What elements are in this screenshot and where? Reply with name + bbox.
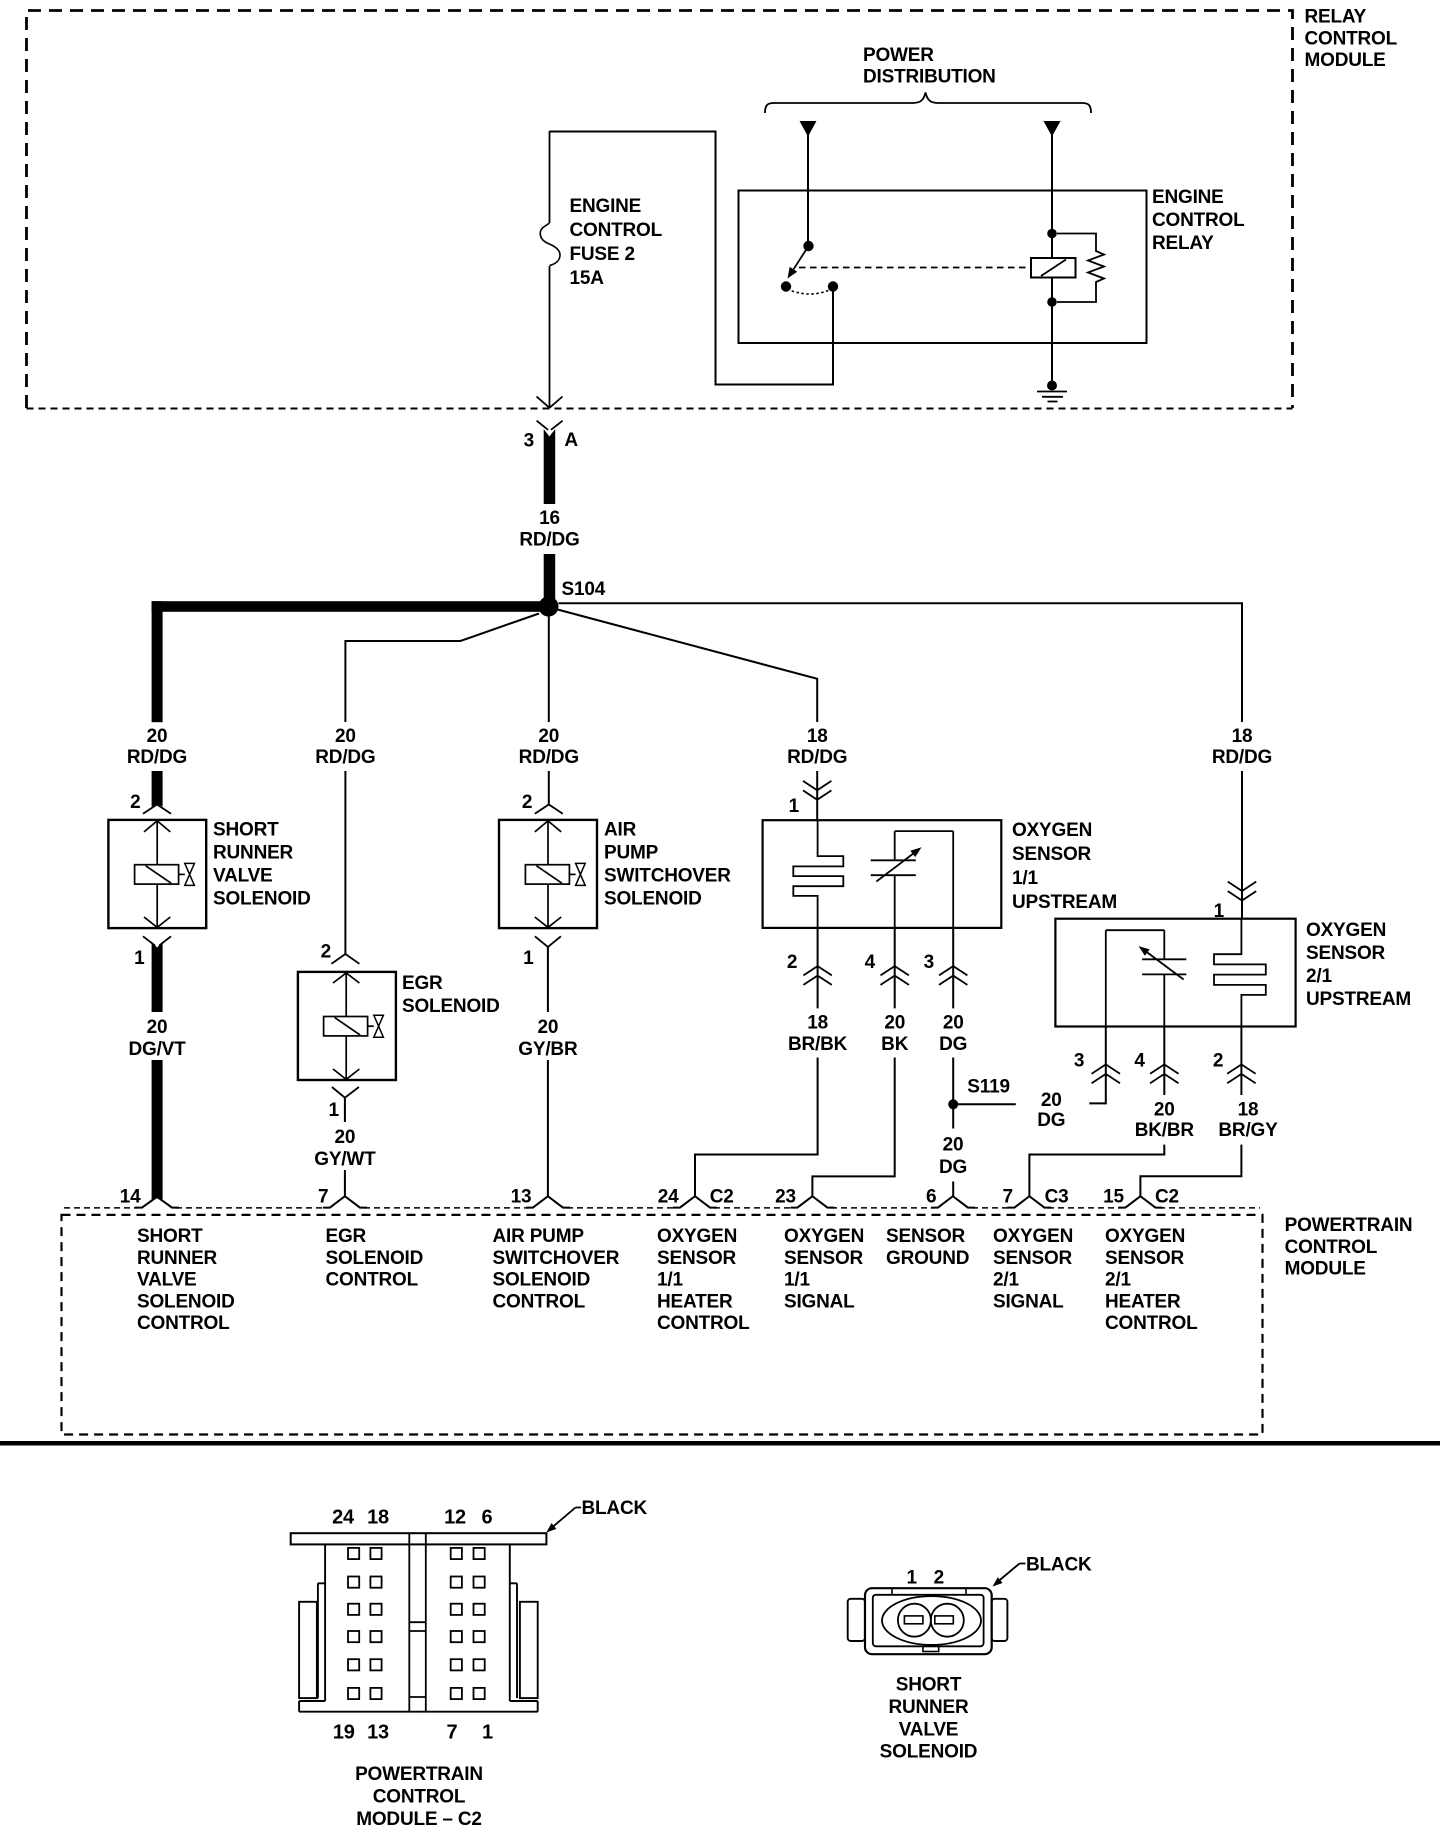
- wire 20 BK to pin 23: [812, 1058, 894, 1197]
- PCM C2 connector left body: [299, 1544, 409, 1711]
- svg-text:EGR: EGR: [402, 973, 443, 994]
- pin 15 C2 chevron at PCM: [1118, 1196, 1162, 1207]
- svg-text:VALVE: VALVE: [213, 866, 273, 887]
- svg-text:ENGINE: ENGINE: [1152, 187, 1224, 208]
- svg-text:SWITCHOVER: SWITCHOVER: [493, 1248, 620, 1269]
- svg-text:SENSOR: SENSOR: [1105, 1248, 1185, 1269]
- svg-text:GY/BR: GY/BR: [518, 1039, 578, 1060]
- svg-text:15A: 15A: [570, 268, 605, 289]
- svg-text:CONTROL: CONTROL: [657, 1313, 750, 1334]
- inline connector chevrons O2 1/1 pin 2: [803, 966, 831, 985]
- svg-text:20: 20: [335, 726, 356, 747]
- wire 20 GY/WT: [344, 1098, 346, 1196]
- svg-text:SENSOR: SENSOR: [993, 1248, 1073, 1269]
- svg-text:2: 2: [1213, 1051, 1223, 1072]
- svg-text:18: 18: [807, 1012, 828, 1033]
- svg-text:BLACK: BLACK: [582, 1498, 648, 1519]
- short runner connector black leader arrow: [993, 1564, 1026, 1587]
- svg-text:13: 13: [511, 1186, 532, 1207]
- svg-text:7: 7: [1003, 1186, 1013, 1207]
- pin 7 chevron at PCM: [323, 1196, 367, 1207]
- relay suppression resistor: [1057, 234, 1104, 303]
- oxygen sensor 1/1 heater element: [793, 820, 843, 928]
- svg-text:SENSOR: SENSOR: [1012, 844, 1092, 865]
- svg-text:4: 4: [865, 952, 876, 973]
- inline connector chevrons O2 1/1 pin 3: [939, 966, 967, 985]
- wire 20 GY/BR: [547, 947, 549, 1196]
- svg-text:SHORT: SHORT: [896, 1675, 962, 1696]
- relay switch dashed travel arc: [787, 289, 832, 294]
- svg-text:2/1: 2/1: [1105, 1270, 1131, 1291]
- svg-text:20: 20: [1041, 1090, 1062, 1111]
- pin 6 chevron at PCM: [931, 1196, 975, 1207]
- svg-text:CONTROL: CONTROL: [326, 1270, 419, 1291]
- oxygen sensor 1/1 sensing element: [871, 831, 954, 928]
- svg-text:OXYGEN: OXYGEN: [1012, 820, 1092, 841]
- PCM C2 black leader arrow: [546, 1508, 581, 1533]
- svg-text:C2: C2: [1155, 1186, 1179, 1207]
- pin 1 connector at short runner valve solenoid: [143, 936, 171, 1012]
- inline connector chevrons O2 2/1 pin 4: [1150, 1064, 1178, 1083]
- svg-text:20: 20: [943, 1135, 964, 1156]
- svg-text:HEATER: HEATER: [657, 1291, 733, 1312]
- svg-text:1: 1: [329, 1100, 340, 1121]
- air pump switchover solenoid internals: [525, 821, 585, 928]
- svg-text:RD/DG: RD/DG: [1212, 747, 1272, 768]
- svg-text:DISTRIBUTION: DISTRIBUTION: [863, 67, 996, 88]
- PCM C2 connector center divider: [409, 1533, 426, 1712]
- svg-text:3: 3: [1074, 1051, 1084, 1072]
- svg-text:2: 2: [522, 792, 532, 813]
- relay coil: [1031, 258, 1076, 278]
- relay coil top node: [1047, 229, 1057, 239]
- splice S104: [539, 597, 559, 617]
- svg-text:DG/VT: DG/VT: [128, 1039, 186, 1060]
- svg-text:A: A: [564, 430, 578, 451]
- svg-text:1: 1: [134, 948, 145, 969]
- svg-text:BK: BK: [881, 1034, 909, 1055]
- svg-text:UPSTREAM: UPSTREAM: [1012, 892, 1117, 913]
- svg-text:18: 18: [367, 1507, 389, 1529]
- EGR branch wire from S104: [345, 614, 539, 954]
- svg-text:2: 2: [130, 792, 140, 813]
- relay coil bottom node: [1047, 297, 1057, 307]
- splice S119: [948, 1099, 958, 1109]
- svg-text:23: 23: [775, 1186, 796, 1207]
- short runner valve solenoid box: [108, 820, 206, 928]
- pin 2 connector at EGR solenoid: [331, 954, 359, 964]
- oxygen sensor 2/1 sensing element: [1106, 930, 1187, 1026]
- power feed arrow B+ left: [800, 121, 817, 137]
- svg-text:SENSOR: SENSOR: [657, 1248, 737, 1269]
- svg-text:FUSE 2: FUSE 2: [570, 244, 635, 265]
- svg-text:ENGINE: ENGINE: [570, 196, 642, 217]
- svg-text:6: 6: [926, 1186, 936, 1207]
- svg-text:14: 14: [120, 1186, 141, 1207]
- svg-text:20: 20: [147, 726, 168, 747]
- svg-text:2: 2: [321, 942, 331, 963]
- power feed arrow B+ right: [1044, 121, 1061, 137]
- wire 20 BK/BR to pin 7 C3: [1029, 1145, 1164, 1196]
- svg-text:MODULE: MODULE: [1305, 50, 1386, 71]
- svg-text:20: 20: [1154, 1099, 1175, 1120]
- svg-text:CONTROL: CONTROL: [570, 220, 663, 241]
- svg-text:SENSOR: SENSOR: [784, 1248, 864, 1269]
- EGR solenoid box: [298, 972, 396, 1080]
- powertrain control module dashed box: [62, 1215, 1263, 1435]
- pin 14 chevron at PCM: [135, 1197, 179, 1208]
- svg-text:EGR: EGR: [326, 1226, 367, 1247]
- svg-text:RUNNER: RUNNER: [888, 1697, 969, 1718]
- svg-text:OXYGEN: OXYGEN: [784, 1226, 864, 1247]
- svg-text:SOLENOID: SOLENOID: [137, 1291, 235, 1312]
- oxygen sensor 2/1 heater element: [1214, 919, 1266, 1027]
- O2 1/1 pin wires below box: [818, 928, 954, 1009]
- svg-text:RUNNER: RUNNER: [213, 842, 294, 863]
- pin 13 chevron at PCM: [526, 1196, 570, 1207]
- svg-text:AIR: AIR: [604, 819, 637, 840]
- pin 1 connector at EGR solenoid: [332, 1087, 359, 1098]
- PCM connector row thin dashed line: [64, 1207, 1260, 1209]
- svg-text:15: 15: [1103, 1186, 1124, 1207]
- oxygen sensor 2/1 branch wire from S104: [559, 603, 1243, 919]
- PCM C2 connector top bar: [291, 1533, 547, 1544]
- svg-text:RD/DG: RD/DG: [315, 747, 375, 768]
- relay switch contact left: [781, 281, 791, 291]
- svg-text:RELAY: RELAY: [1152, 233, 1214, 254]
- inline connector chevrons O2 2/1 pin 2: [1227, 1064, 1255, 1083]
- pin 2 connector at short runner valve solenoid: [143, 805, 171, 814]
- svg-text:24: 24: [658, 1186, 679, 1207]
- svg-text:DG: DG: [939, 1157, 967, 1178]
- svg-text:BLACK: BLACK: [1026, 1555, 1092, 1576]
- svg-text:OXYGEN: OXYGEN: [993, 1226, 1073, 1247]
- svg-text:CONTROL: CONTROL: [1285, 1237, 1378, 1258]
- svg-text:1: 1: [907, 1568, 918, 1589]
- svg-text:1: 1: [1214, 901, 1225, 922]
- svg-text:20: 20: [538, 726, 559, 747]
- connector pin 3/A: [537, 421, 563, 504]
- svg-text:SHORT: SHORT: [137, 1226, 203, 1247]
- engine control fuse 2: [540, 131, 560, 407]
- relay actuation dashed link: [799, 267, 1030, 269]
- svg-text:RD/DG: RD/DG: [519, 747, 579, 768]
- relay switch blade with arrowhead: [788, 246, 809, 279]
- svg-text:GY/WT: GY/WT: [314, 1149, 376, 1170]
- svg-text:1/1: 1/1: [1012, 868, 1038, 889]
- svg-text:12: 12: [444, 1507, 466, 1529]
- PCM C2 connector right body: [426, 1544, 538, 1711]
- svg-text:1: 1: [789, 796, 800, 817]
- svg-text:RD/DG: RD/DG: [519, 530, 579, 551]
- inline connector chevrons O2 2/1 pin 3: [1092, 1064, 1120, 1083]
- svg-text:3: 3: [924, 952, 934, 973]
- svg-text:18: 18: [807, 726, 828, 747]
- svg-text:20: 20: [538, 1017, 559, 1038]
- svg-text:20: 20: [335, 1127, 356, 1148]
- wire relay switch output to fuse: [550, 132, 834, 385]
- svg-text:UPSTREAM: UPSTREAM: [1306, 989, 1411, 1010]
- wire 20 DG S119 to pin 6: [952, 1109, 954, 1196]
- svg-text:RELAY: RELAY: [1305, 7, 1367, 28]
- svg-text:24: 24: [332, 1507, 355, 1529]
- relay switch contact right (output): [828, 281, 838, 291]
- svg-text:OXYGEN: OXYGEN: [1105, 1226, 1185, 1247]
- svg-text:1: 1: [482, 1722, 493, 1744]
- svg-text:RD/DG: RD/DG: [787, 747, 847, 768]
- svg-text:HEATER: HEATER: [1105, 1291, 1181, 1312]
- pin 1 connector at air pump solenoid: [535, 936, 561, 947]
- svg-text:OXYGEN: OXYGEN: [1306, 920, 1386, 941]
- power distribution brace: [765, 93, 1091, 114]
- svg-text:BR/GY: BR/GY: [1218, 1120, 1278, 1141]
- wire 20 DG to splice S119: [952, 1058, 954, 1100]
- wire 18 BR/BK to pin 24: [695, 1058, 818, 1197]
- svg-text:19: 19: [333, 1722, 355, 1744]
- svg-text:CONTROL: CONTROL: [1105, 1313, 1198, 1334]
- svg-text:S104: S104: [562, 579, 606, 600]
- wire 18 BR/GY to pin 15 C2: [1140, 1145, 1241, 1196]
- inline connector chevrons O2 1/1 pin 1: [803, 781, 831, 800]
- ground symbol: [1037, 381, 1067, 402]
- svg-text:VALVE: VALVE: [899, 1719, 959, 1740]
- svg-text:CONTROL: CONTROL: [1152, 210, 1245, 231]
- svg-text:SWITCHOVER: SWITCHOVER: [604, 866, 731, 887]
- oxygen sensor 1/1 branch wire from S104: [558, 610, 818, 821]
- svg-text:MODULE – C2: MODULE – C2: [356, 1809, 482, 1830]
- air pump switchover solenoid box: [499, 820, 597, 928]
- pin 24 C2 chevron at PCM: [673, 1196, 717, 1207]
- svg-text:AIR PUMP: AIR PUMP: [493, 1226, 585, 1247]
- svg-text:SOLENOID: SOLENOID: [402, 996, 500, 1017]
- svg-text:PUMP: PUMP: [604, 842, 659, 863]
- svg-text:DG: DG: [939, 1034, 967, 1055]
- svg-text:CONTROL: CONTROL: [493, 1291, 586, 1312]
- svg-text:2/1: 2/1: [1306, 966, 1332, 987]
- svg-text:18: 18: [1232, 726, 1253, 747]
- svg-text:OXYGEN: OXYGEN: [657, 1226, 737, 1247]
- svg-text:SOLENOID: SOLENOID: [880, 1742, 978, 1763]
- PCM C2 pin cavities: [348, 1548, 485, 1699]
- short runner valve solenoid connector body: [848, 1588, 1008, 1654]
- oxygen sensor 2/1 upstream box: [1055, 919, 1295, 1027]
- wire 20 DG/VT thick: [152, 1060, 163, 1201]
- svg-text:POWERTRAIN: POWERTRAIN: [355, 1764, 483, 1785]
- pin 23 chevron at PCM: [790, 1196, 834, 1207]
- svg-text:POWER: POWER: [863, 45, 934, 66]
- svg-text:SHORT: SHORT: [213, 819, 279, 840]
- svg-text:20: 20: [884, 1012, 905, 1033]
- svg-text:6: 6: [482, 1507, 493, 1529]
- svg-text:16: 16: [539, 508, 560, 529]
- short runner valve solenoid internals: [135, 821, 195, 928]
- svg-text:SENSOR: SENSOR: [886, 1226, 966, 1247]
- svg-text:CONTROL: CONTROL: [137, 1313, 230, 1334]
- svg-text:7: 7: [318, 1186, 328, 1207]
- svg-text:20: 20: [147, 1017, 168, 1038]
- svg-text:SIGNAL: SIGNAL: [993, 1291, 1064, 1312]
- engine control relay box: [739, 191, 1147, 344]
- svg-text:CONTROL: CONTROL: [373, 1786, 466, 1807]
- svg-text:SENSOR: SENSOR: [1306, 943, 1386, 964]
- svg-text:C3: C3: [1045, 1186, 1069, 1207]
- svg-text:1/1: 1/1: [657, 1270, 683, 1291]
- svg-text:CONTROL: CONTROL: [1305, 28, 1398, 49]
- svg-text:DG: DG: [1037, 1110, 1065, 1131]
- svg-text:20: 20: [943, 1012, 964, 1033]
- svg-text:S119: S119: [967, 1077, 1010, 1098]
- svg-text:2: 2: [934, 1568, 944, 1589]
- svg-text:BR/BK: BR/BK: [788, 1034, 848, 1055]
- svg-text:SOLENOID: SOLENOID: [493, 1270, 591, 1291]
- wire from power feed to relay switch: [807, 135, 809, 246]
- svg-text:RUNNER: RUNNER: [137, 1248, 218, 1269]
- svg-text:13: 13: [367, 1722, 389, 1744]
- svg-text:POWERTRAIN: POWERTRAIN: [1285, 1215, 1413, 1236]
- svg-text:C2: C2: [710, 1186, 734, 1207]
- relay control module dashed box: [27, 11, 1293, 409]
- svg-text:1/1: 1/1: [784, 1270, 810, 1291]
- pin 7 C3 chevron at PCM: [1007, 1196, 1051, 1207]
- svg-text:MODULE: MODULE: [1285, 1259, 1366, 1280]
- svg-text:SOLENOID: SOLENOID: [213, 889, 311, 910]
- fuse output arrowhead at module edge: [537, 397, 563, 408]
- wire 16 RD/DG thick trunk: [544, 554, 556, 599]
- wire from power feed to relay coil: [1051, 135, 1053, 258]
- wire relay coil to ground: [1051, 278, 1053, 382]
- svg-text:SOLENOID: SOLENOID: [604, 889, 702, 910]
- EGR solenoid internals: [324, 973, 384, 1080]
- svg-text:GROUND: GROUND: [886, 1248, 969, 1269]
- separator bar: [0, 1441, 1440, 1446]
- inline connector chevrons O2 1/1 pin 4: [881, 966, 909, 985]
- svg-text:SIGNAL: SIGNAL: [784, 1291, 855, 1312]
- svg-text:3: 3: [524, 431, 534, 452]
- wire S119 to oxygen sensor 2/1 pin 3: [958, 1103, 1016, 1105]
- svg-text:4: 4: [1134, 1051, 1145, 1072]
- svg-text:RD/DG: RD/DG: [127, 747, 187, 768]
- svg-text:BK/BR: BK/BR: [1135, 1120, 1195, 1141]
- inline connector chevrons O2 2/1 pin 1: [1228, 882, 1256, 901]
- air pump branch wire from S104: [548, 616, 550, 804]
- svg-text:2/1: 2/1: [993, 1270, 1019, 1291]
- svg-text:SOLENOID: SOLENOID: [326, 1248, 424, 1269]
- svg-text:VALVE: VALVE: [137, 1270, 197, 1291]
- thick trunk to short runner valve solenoid: [152, 601, 549, 807]
- relay switch common node: [803, 241, 813, 251]
- svg-text:7: 7: [447, 1722, 458, 1744]
- oxygen sensor 1/1 upstream box: [763, 820, 1002, 928]
- O2 2/1 pin wires below box: [1089, 1027, 1106, 1104]
- svg-text:2: 2: [787, 952, 797, 973]
- svg-text:1: 1: [523, 948, 534, 969]
- svg-text:18: 18: [1238, 1099, 1259, 1120]
- pin 2 connector at air pump solenoid: [535, 805, 563, 814]
